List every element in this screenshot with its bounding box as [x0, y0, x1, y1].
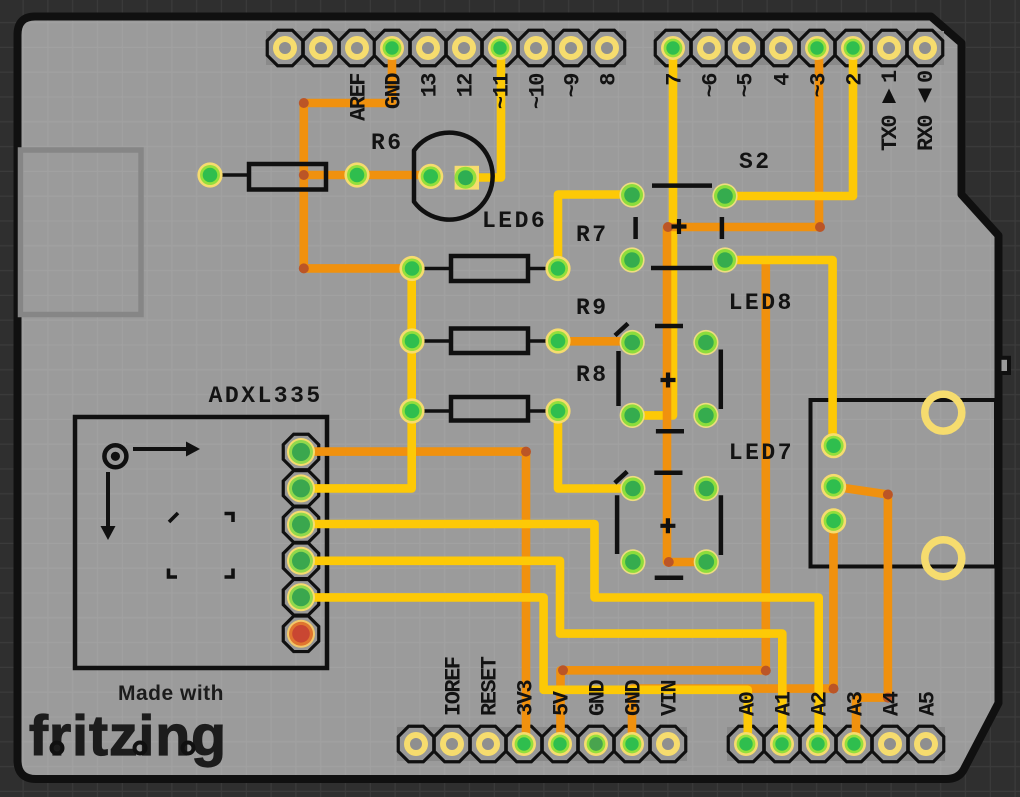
connector J1 outline (right): [811, 400, 997, 567]
pin 0 RX0 label: [914, 71, 939, 151]
pin 1 TX0 label: [878, 70, 903, 151]
ADXL335 Y axis arrow: [101, 472, 116, 540]
header band bottom-right: [727, 727, 945, 761]
connector J1 mounting rings: [925, 394, 962, 577]
wire: orange R9 right pad to LED8 anode pad: [558, 337, 632, 346]
S2 pads: [619, 182, 737, 272]
board edge tab: [1000, 358, 1010, 373]
junction bendpoint dots: [299, 98, 893, 703]
resistor R6 body: [249, 164, 326, 190]
svg-text:S2: S2: [739, 149, 772, 175]
resistor R6 leads: [210, 173, 357, 177]
wire: yellow R8 right pad to LED7 anode pad: [558, 411, 633, 489]
svg-text:5V: 5V: [549, 690, 574, 716]
svg-text:8: 8: [596, 73, 621, 86]
svg-text:LED8: LED8: [729, 290, 794, 316]
svg-text:0: 0: [914, 71, 939, 83]
svg-text:~11: ~11: [489, 73, 514, 109]
svg-text:A1: A1: [771, 691, 796, 716]
svg-text:~6: ~6: [698, 74, 723, 98]
wire: yellow LED6 pad to pin ~11: [466, 48, 501, 178]
svg-text:R9: R9: [576, 295, 609, 321]
ADXL335 origin symbol: [104, 445, 126, 467]
svg-text:LED6: LED6: [482, 208, 547, 234]
wire: yellow S2 pad to pin 2: [725, 48, 853, 196]
svg-text:R6: R6: [371, 130, 404, 156]
wire: orange 5V net to S2 pad: [561, 262, 766, 744]
svg-text:IOREF: IOREF: [441, 657, 466, 716]
GND1 pad dull green overlay: [589, 737, 602, 750]
svg-text:R7: R7: [576, 222, 609, 248]
LED8 pads: [620, 330, 719, 428]
R6 pads: [197, 162, 369, 187]
svg-text:GND: GND: [621, 680, 646, 716]
svg-text:~9: ~9: [560, 74, 585, 98]
resistor R8 body: [451, 397, 528, 421]
svg-text:A5: A5: [915, 691, 940, 716]
svg-text:A3: A3: [843, 691, 868, 716]
svg-text:2: 2: [842, 74, 867, 86]
resistor R8 leads: [412, 409, 558, 413]
svg-text:GND: GND: [585, 680, 610, 716]
wire: orange A3 net to connector pad B: [834, 487, 888, 745]
bottom pin labels: [441, 656, 940, 716]
wire: orange GND net to connector pad C: [632, 521, 834, 744]
svg-text:RX0: RX0: [914, 116, 939, 151]
R8 pads: [399, 398, 570, 423]
bottom header pads: [404, 732, 938, 756]
R9 pads: [399, 328, 570, 353]
svg-text:Made with: Made with: [118, 682, 224, 705]
ADXL335 chip corner marks: [169, 513, 234, 577]
resistor R7 leads: [412, 267, 558, 271]
wire: yellow S2 pad to connector pad A: [725, 260, 833, 446]
svg-text:13: 13: [417, 73, 442, 98]
wire: yellow A0 net from ADXL pad 5: [301, 597, 748, 744]
svg-text:R8: R8: [576, 362, 609, 388]
resistor R9 body: [451, 329, 528, 354]
pin octagons top-right header: [655, 30, 943, 66]
wire: yellow trace pin 7 to LED8 cathode pad: [632, 48, 673, 415]
svg-text:~10: ~10: [525, 74, 550, 109]
resistor R9 leads: [412, 339, 558, 343]
svg-text:1: 1: [878, 70, 903, 83]
svg-text:RESET: RESET: [477, 656, 502, 716]
wire: yellow A2 net from ADXL pad 3: [301, 524, 819, 744]
pin octagons top-left header: [267, 30, 625, 66]
ADXL335 pin octagon chain: [283, 434, 319, 651]
LED6 pads: [418, 164, 479, 190]
Made with fritzing logo: [29, 682, 227, 768]
IC U1 ADXL335 module outline: [75, 417, 327, 668]
svg-text:ADXL335: ADXL335: [209, 383, 323, 409]
header band top-right: [654, 31, 944, 65]
silkscreen rectangle left: [21, 150, 142, 315]
LED7 silkscreen: [615, 472, 721, 578]
connector J1 pads A B C: [821, 433, 846, 533]
wire: orange 3V3 net to ADXL pad 1: [301, 452, 526, 744]
wire: yellow R7 right pad to S2 pad: [558, 195, 632, 269]
wire: orange GND net from pin GND to R7 left pad: [304, 48, 412, 268]
svg-text:12: 12: [453, 74, 478, 98]
wire: orange GND branch through R6 to LED6 pad: [304, 171, 432, 180]
wire: orange net pin ~3 to LED7 pad: [667, 48, 819, 562]
LED8 silkscreen: [615, 324, 721, 432]
R7 pads: [399, 256, 570, 281]
svg-text:fritzing: fritzing: [29, 704, 227, 768]
svg-text:GND: GND: [381, 73, 406, 109]
svg-text:VIN: VIN: [657, 681, 682, 716]
switch S2 silkscreen: [636, 186, 722, 268]
svg-text:AREF: AREF: [346, 74, 371, 121]
svg-text:A4: A4: [879, 691, 904, 716]
pin octagons bottom-left header: [398, 726, 686, 762]
header band top-left: [266, 31, 626, 65]
ADXL335 X axis arrow: [133, 442, 200, 457]
top pin labels: [346, 73, 867, 121]
svg-text:4: 4: [770, 73, 795, 86]
svg-text:LED7: LED7: [729, 440, 794, 466]
ADXL335 pads: [287, 438, 315, 648]
svg-text:3V3: 3V3: [513, 680, 538, 716]
svg-text:A0: A0: [735, 692, 760, 716]
svg-text:~3: ~3: [806, 73, 831, 98]
svg-text:A2: A2: [807, 692, 832, 716]
pin octagons bottom-right header: [728, 726, 944, 762]
wire: yellow ADXL pad 2 to resistor column: [301, 269, 412, 489]
top header pads: [273, 36, 937, 60]
svg-text:TX0: TX0: [878, 116, 903, 151]
LED6 body outline: [414, 133, 493, 220]
svg-text:~5: ~5: [733, 73, 758, 98]
header band bottom-left: [397, 727, 687, 761]
LED7 pads: [620, 476, 719, 575]
resistor R7 body: [451, 256, 528, 281]
wire: yellow A1 net from ADXL pad 4: [301, 561, 782, 744]
svg-text:7: 7: [662, 74, 687, 86]
